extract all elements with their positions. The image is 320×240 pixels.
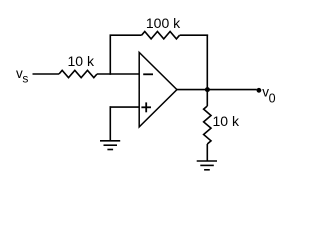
svg-text:s: s [22, 72, 28, 86]
op-amp U1 triangle [139, 52, 177, 127]
wire down to ground (left) [109, 106, 111, 141]
wire op-amp non-inverting input to left [110, 106, 140, 108]
resistor R3 10 k (load, vertical) [204, 106, 211, 144]
junction node B (output) dot [205, 87, 210, 92]
wire vs to resistor R1 [33, 73, 60, 75]
svg-text:10 k: 10 k [213, 113, 240, 129]
ground (right) [197, 161, 217, 170]
ground (left) [100, 141, 120, 150]
svg-text:10 k: 10 k [68, 53, 95, 69]
svg-text:0: 0 [269, 91, 276, 105]
resistor R2 100 k (feedback) [142, 32, 180, 39]
wire R3 to ground (right) [206, 144, 208, 161]
wire feedback top-right horizontal [180, 34, 208, 36]
wire node A up (feedback left vertical) [109, 35, 111, 75]
wire feedback top-left horizontal [110, 34, 142, 36]
svg-text:100 k: 100 k [146, 15, 181, 31]
resistor R1 10 k (series input) [59, 70, 97, 77]
node vs (source label) [16, 66, 28, 85]
op-amp U1 non-inverting input marker (plus) [141, 102, 151, 112]
wire node B down to resistor R3 [206, 90, 208, 106]
terminal dot v0 [257, 88, 262, 93]
wire op-amp output to terminal v0 [177, 89, 257, 91]
wire feedback right vertical down to output node [206, 35, 208, 90]
node v0 (output label) [262, 84, 275, 105]
wire R1 to op-amp inverting input, junction node A [97, 73, 139, 75]
op-amp U1 inverting input marker (minus) [143, 73, 153, 75]
